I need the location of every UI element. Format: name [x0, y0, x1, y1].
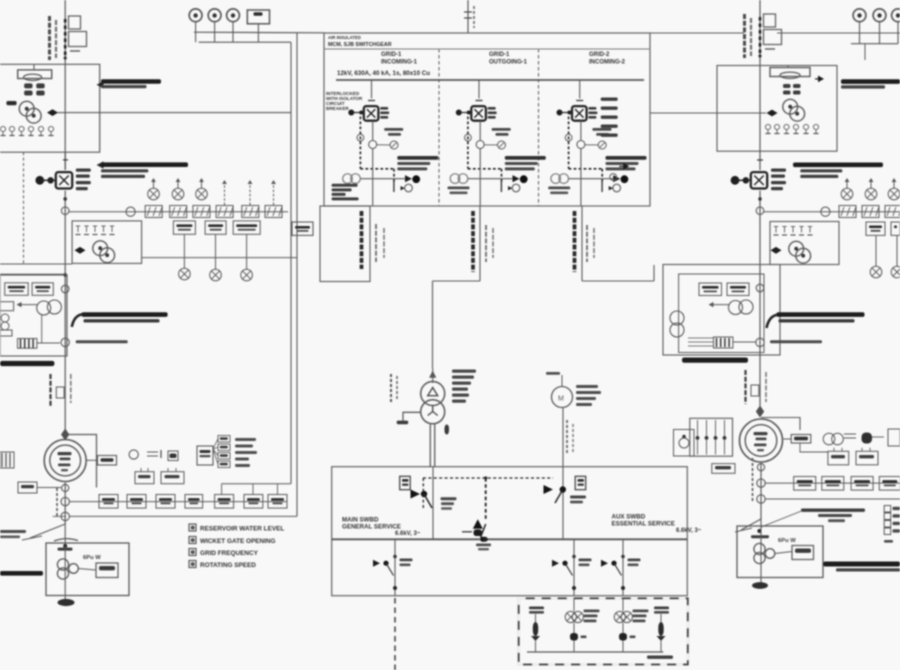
gauge PG3: [227, 9, 240, 22]
dist col trafo 3: [622, 598, 624, 611]
relay box R E2: [727, 283, 749, 296]
wire left HV line: [64, 0, 66, 170]
relay box E1: [5, 283, 29, 296]
MV box bottom edge: [324, 205, 650, 207]
label held open: [492, 128, 511, 131]
gauge PG2: [208, 9, 221, 22]
relay box R E1: [699, 283, 722, 296]
wire cell drop x=479.0: [478, 80, 480, 98]
gauges top right: [853, 9, 866, 22]
relay right row: [866, 222, 885, 235]
dist col fuse 1: [529, 607, 544, 610]
dist col fuse 4: [654, 607, 669, 610]
label supply rotated: [390, 374, 392, 402]
aux circle arrow: [512, 184, 520, 192]
AVR box left: [72, 221, 142, 264]
arrow stem 4: [224, 184, 226, 205]
cell3 annunciator stack: [601, 98, 618, 101]
node circle R1: [756, 207, 764, 215]
wire feeder cell2: [479, 206, 481, 281]
ground right: [752, 582, 768, 589]
svg-text:GRID-1: GRID-1: [489, 52, 510, 58]
capacitor trip label: [505, 156, 546, 160]
hatched transducer row: [145, 206, 162, 218]
actuator box right: [770, 68, 810, 77]
wire to earth: [64, 524, 66, 546]
label GOV: [6, 101, 16, 105]
switch blade right: [741, 519, 761, 530]
VT arrow right: [712, 304, 729, 306]
brush aux box: [712, 464, 735, 474]
dashed feeder down: [394, 598, 396, 670]
node diamond gen top: [61, 429, 69, 441]
svg-text:GRID-1: GRID-1: [381, 52, 402, 58]
interlock dashed down: [359, 117, 361, 169]
svg-text:6Pu W: 6Pu W: [778, 538, 796, 544]
CT group 1: [148, 188, 160, 200]
interlock dashed down: [568, 117, 570, 169]
earth aux box right: [792, 546, 814, 560]
wire cell drop x=579.7: [579, 80, 581, 98]
wire feeder cell3: [581, 206, 583, 281]
CT right 2: [865, 188, 877, 200]
VT pair right: [729, 301, 743, 315]
gen aux box: [18, 482, 37, 493]
node circle R343: [756, 338, 764, 346]
riser meter box: [292, 222, 313, 235]
svg-text:6Pu W: 6Pu W: [83, 555, 101, 561]
earth circles right: [754, 543, 765, 554]
breaker VCB @0: [364, 106, 379, 121]
label held open: [592, 128, 611, 131]
pad boxes right: [828, 451, 849, 465]
capacitor trip label: [397, 156, 438, 160]
wire breaker down: [372, 121, 374, 141]
earth aux box: [96, 563, 118, 578]
PT circles bottom: [551, 174, 561, 184]
label generator breaker bar: [97, 161, 104, 168]
label VCB: [588, 107, 596, 110]
wire trafo to swbd double: [429, 425, 431, 467]
label busbar protection swoosh: [72, 314, 84, 327]
svg-text:M: M: [558, 396, 564, 403]
cell1 bottom labels: [332, 184, 358, 187]
gen data text: [235, 438, 256, 441]
label trash rack: [97, 81, 104, 88]
wire right lead: [757, 159, 763, 161]
meter row left: [0, 126, 5, 131]
CT right 3: [888, 188, 900, 200]
bus tie breaker: [473, 519, 483, 529]
VT arrow: [20, 304, 37, 306]
wire breaker down: [479, 121, 481, 141]
interlock dashed down: [467, 117, 469, 169]
wire y274: [0, 273, 65, 275]
interlock dashed swbd: [423, 477, 553, 479]
outgoing feeder at 395: [394, 539, 396, 595]
node circle L2: [126, 207, 135, 216]
exc stack left: [0, 302, 14, 311]
wire relay feed 1: [69, 501, 287, 503]
wire vt link: [41, 315, 43, 343]
wire gen lead upper: [64, 152, 66, 170]
outgoing feeder at 574: [573, 539, 575, 595]
wire instrument bus y211: [69, 211, 288, 213]
label exc dark bar: [0, 361, 54, 366]
incomer at 433: [432, 467, 434, 540]
svg-text:ROTATING SPEED: ROTATING SPEED: [200, 562, 256, 569]
node diamond right: [756, 406, 764, 418]
gen terminal box: [98, 456, 117, 466]
arrester box right: [751, 385, 759, 396]
wire gen lead lower: [64, 483, 66, 525]
outgoing feeder at 623: [622, 539, 624, 595]
interlock dashed horiz: [468, 168, 502, 170]
node circle R2: [821, 207, 830, 216]
svg-text:INCOMING-1: INCOMING-1: [381, 59, 418, 65]
dist bus: [527, 651, 663, 653]
cap symbol: [147, 451, 158, 453]
exciter circle box right: [674, 430, 695, 457]
svg-text:GENERAL SERVICE: GENERAL SERVICE: [342, 523, 401, 530]
CT group 3: [196, 188, 208, 200]
svg-text:GRID FREQUENCY: GRID FREQUENCY: [200, 550, 259, 557]
wire cell drop x=371.5: [371, 80, 373, 98]
left hatch block: [0, 452, 14, 468]
cap sym right: [844, 433, 856, 435]
generator G2: [740, 419, 783, 462]
actuator box A1: [18, 70, 52, 79]
CT circle row c: [61, 512, 69, 520]
arrow right gov: [815, 78, 822, 80]
gate valve left: [19, 101, 34, 116]
breaker VCB @107.5: [471, 106, 486, 121]
AVR symbols right: [775, 227, 777, 233]
capacitor trip label: [606, 156, 647, 160]
svg-text:GRID-2: GRID-2: [589, 52, 610, 58]
wire y264: [0, 263, 72, 265]
striped box right: [714, 337, 733, 348]
arrow stem 5: [249, 184, 251, 205]
governor box left: [0, 64, 100, 152]
exc trafo right: [670, 311, 684, 325]
legend squares right: [884, 506, 891, 513]
wire relay feed right 1: [765, 482, 900, 484]
label motor data: [576, 385, 598, 388]
wire speed signal line: [58, 112, 292, 114]
CT circle row b: [61, 497, 69, 505]
cable text c1: [360, 211, 364, 269]
arrow stem 6: [273, 184, 275, 205]
svg-text:MCM, SJB SWITCHGEAR: MCM, SJB SWITCHGEAR: [328, 42, 392, 48]
wire relay feed 2: [69, 515, 297, 517]
trafo ground tap: [403, 412, 421, 421]
wire relay top link: [222, 483, 291, 485]
wire riser bottom links: [53, 515, 65, 517]
gen terminal box right: [791, 435, 811, 444]
label STR-1 block: [452, 370, 476, 373]
label exc dark bar right: [682, 358, 748, 363]
disconnector dashes left top: [64, 19, 67, 55]
dark bar left bottom: [0, 571, 43, 576]
relay row right bottom: [794, 477, 816, 491]
node circle L343: [61, 338, 69, 346]
leader line right: [761, 511, 801, 527]
wire speed line right: [650, 112, 766, 114]
diamond right: [767, 110, 778, 117]
interlock dashed horiz: [569, 168, 603, 170]
arrester box: [56, 387, 64, 398]
aux circle arrow: [613, 184, 621, 192]
svg-text:6.6kV, 3~: 6.6kV, 3~: [676, 528, 702, 534]
aux slash circle: [498, 141, 506, 149]
motor M: [552, 387, 573, 408]
excitation outer box right: [663, 265, 780, 356]
breaker GCB-R: [751, 172, 767, 188]
sync circle: [129, 450, 138, 459]
ground left: [58, 599, 75, 606]
breaker VCB @208.2: [572, 106, 587, 121]
ct rotated label: [56, 488, 58, 516]
PT circles bottom: [343, 174, 353, 184]
CT group 2: [172, 188, 184, 200]
earth circle right: [870, 266, 882, 278]
wire grid drop: [467, 0, 469, 33]
hatched row right: [839, 206, 856, 218]
PT circles bottom: [450, 174, 460, 184]
wire gen lead mid: [64, 191, 66, 435]
AVR box right: [770, 222, 839, 265]
relay row: [173, 221, 195, 234]
label grid lines right: [801, 509, 865, 512]
striped box left: [18, 339, 37, 349]
MV switchgear enclosure: [324, 33, 650, 206]
swbd main bus: [332, 538, 688, 540]
distribution box dashed: [519, 598, 688, 664]
earth circle 3: [241, 269, 253, 281]
6PU box right: [737, 526, 823, 578]
arrow into trafo: [429, 371, 436, 378]
cable label right rotated: [743, 14, 746, 58]
PMG box: [197, 446, 213, 465]
node circle L1: [61, 207, 69, 215]
svg-text:OUTGOING-1: OUTGOING-1: [489, 59, 528, 65]
wire gauge bus long: [194, 31, 324, 34]
legend stub top right: [884, 540, 893, 543]
wire gauge bus short: [199, 41, 291, 43]
wire right lead mid: [759, 191, 761, 414]
svg-text:ESSENTIAL SERVICE: ESSENTIAL SERVICE: [612, 520, 675, 527]
aux slash circle: [598, 141, 606, 149]
wire riser pair: [290, 42, 292, 484]
label generator breaker bar right: [793, 163, 883, 168]
cable text right rotated: [744, 370, 746, 404]
generator G1: [44, 440, 86, 482]
wire right lead lower: [760, 463, 762, 519]
dashed feedback left: [23, 152, 25, 264]
busbar MV: [336, 79, 644, 81]
relay tails: [183, 234, 185, 268]
blade arc left: [54, 539, 78, 541]
node dot exc: [63, 273, 67, 277]
cable label left rotated: [48, 16, 51, 60]
meter box M1: [247, 10, 269, 24]
gauge bus right: [851, 43, 898, 45]
aux slash circle: [390, 141, 398, 149]
cell divider 1: [438, 49, 440, 206]
svg-text:BREAKER: BREAKER: [326, 106, 349, 111]
dist col trafo 2: [573, 598, 575, 611]
label 500kV right: [770, 340, 822, 343]
earth circle 2: [210, 269, 222, 281]
wire motor to swbd: [562, 408, 564, 467]
AVR diamond right: [771, 247, 782, 254]
label right gov: [841, 79, 900, 84]
AVR diamond: [75, 247, 86, 254]
brush box right: [690, 418, 733, 456]
CT circle row a: [62, 484, 69, 491]
aux circle arrow: [405, 184, 413, 192]
contact squares right: [783, 84, 791, 88]
earth circles left: [57, 559, 68, 570]
gen frame right: [761, 418, 800, 431]
gauge PG1: [189, 9, 202, 22]
excitation inner box right: [679, 274, 764, 353]
exc dash rows right: [688, 337, 714, 339]
mark right of trafo: [445, 425, 450, 435]
dark bar right bottom: [823, 562, 900, 567]
label GCB-R: [771, 169, 786, 172]
earth circle 1: [179, 268, 191, 280]
wire top link right: [650, 32, 744, 34]
right edge box: [888, 429, 900, 446]
incomer at 563: [562, 467, 564, 540]
relay box E2: [32, 283, 53, 296]
svg-text:WICKET GATE OPENING: WICKET GATE OPENING: [200, 538, 276, 545]
svg-text:AIR INSULATED: AIR INSULATED: [328, 35, 361, 40]
cable text left rotated: [49, 374, 51, 406]
breaker GCB-L: [56, 172, 72, 188]
node circle E: [61, 285, 69, 293]
VT pair left: [37, 301, 51, 315]
relay row bottom: [99, 495, 118, 509]
wire right HV line: [759, 0, 761, 170]
AVR symbols row: [77, 226, 79, 232]
contact squares: [24, 83, 32, 88]
legend: [189, 524, 196, 531]
AVR valve right: [789, 241, 804, 256]
label VCB: [488, 107, 496, 110]
meter row right: [765, 124, 770, 129]
label 500kV text: [76, 340, 128, 343]
pad boxes: [135, 472, 154, 484]
gate valve right: [783, 99, 798, 114]
excitation box left: [0, 275, 67, 356]
cable box cell1: [320, 206, 370, 282]
wire relay feed right 2: [765, 498, 900, 500]
AVR valve left: [93, 241, 108, 256]
gen enclosure frame: [65, 435, 96, 488]
switch blade left: [30, 524, 65, 538]
dark device box: [168, 451, 178, 461]
label switch small: [0, 530, 26, 533]
label held open: [384, 128, 403, 131]
cell divider 2: [538, 49, 540, 206]
interlock dashed horiz: [360, 168, 394, 170]
svg-text:6.6kV, 3~: 6.6kV, 3~: [395, 531, 421, 537]
svg-text:RESERVOIR WATER LEVEL: RESERVOIR WATER LEVEL: [200, 526, 284, 533]
label GCB-L: [76, 169, 91, 172]
transformer STR-1: [421, 382, 445, 406]
node arrow diamond: [47, 109, 58, 116]
wire y257 link: [142, 257, 297, 259]
ellipse pair right: [823, 433, 835, 445]
main switchboard box: [332, 467, 688, 596]
governor box right: [717, 66, 837, 152]
svg-text:12kV, 630A, 40 kA, 1s, 80x10 C: 12kV, 630A, 40 kA, 1s, 80x10 Cu: [337, 70, 430, 77]
label VCB: [380, 107, 388, 110]
disconnector dashes right top: [759, 17, 762, 53]
6PU box left: [46, 543, 129, 596]
wire breaker down: [580, 121, 582, 141]
busbar label swoosh right: [767, 315, 779, 329]
svg-text:INCOMING-2: INCOMING-2: [589, 59, 626, 65]
label dist box: [647, 656, 673, 659]
wire instrument bus right: [764, 211, 900, 213]
CT right 1: [841, 188, 853, 200]
node circle R288: [756, 284, 764, 292]
fan small boxes: [218, 436, 230, 443]
